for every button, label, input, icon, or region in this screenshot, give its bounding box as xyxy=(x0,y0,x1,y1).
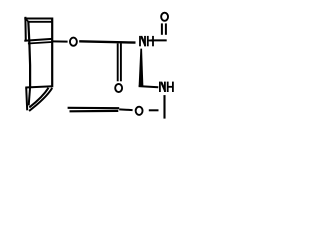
wire: bond ester O to carbamate C to N xyxy=(79,41,135,42)
cyclopropene triangle: inner double-bond line of left edge xyxy=(29,87,30,105)
formyl C=O double bond line 2 xyxy=(165,23,167,34)
carbamate C=O double bond line 2 xyxy=(120,44,122,82)
wire: bond NH to formyl C xyxy=(151,39,167,41)
vinyl C=C double bond top line xyxy=(68,107,120,110)
wire: bond O to CH right xyxy=(149,109,159,111)
formyl O label xyxy=(161,13,168,21)
carbamate carbonyl O label xyxy=(115,84,122,92)
carbamate NH label: N glyph xyxy=(139,36,146,46)
wire: bond ring to ester O xyxy=(53,40,68,42)
ester O label xyxy=(70,38,77,46)
wire: bond alpha C to NH xyxy=(139,86,159,87)
stereo wedge bond N-CH xyxy=(139,49,144,86)
bicyclic cage ring: inner bottom edge xyxy=(28,42,52,44)
bicyclic cage ring: outer left edge xyxy=(24,17,26,42)
vinyl C=C double bond inner line xyxy=(70,110,119,113)
wire: bond vinyl C to ether O xyxy=(119,108,132,111)
ether O label xyxy=(136,107,143,115)
left vertical bond of ring xyxy=(28,21,30,87)
carbamate NH label: H glyph xyxy=(147,36,154,46)
carbamate C=O double bond line 1 xyxy=(117,44,119,82)
bicyclic cage ring: outer bottom edge xyxy=(24,39,52,41)
cyclopropene triangle: left edge xyxy=(26,88,27,111)
cyclopropene triangle: inner double-bond line of hypotenuse xyxy=(29,88,48,108)
right vertical bond of ring xyxy=(51,18,53,88)
bicyclic cage ring: outer top edge xyxy=(24,18,52,20)
bicyclic cage ring: bridge diagonal top-left xyxy=(25,19,28,22)
bicyclic cage ring: inner top edge xyxy=(29,21,53,23)
cyclopropene triangle: outer hypotenuse xyxy=(29,88,52,111)
formyl C=O double bond line 1 xyxy=(161,23,163,34)
wire: bond NH down to CH xyxy=(163,95,165,119)
amine NH label: H glyph xyxy=(167,82,174,92)
amine NH label: N glyph xyxy=(159,82,166,92)
cyclopropene triangle: top edge xyxy=(25,86,53,87)
